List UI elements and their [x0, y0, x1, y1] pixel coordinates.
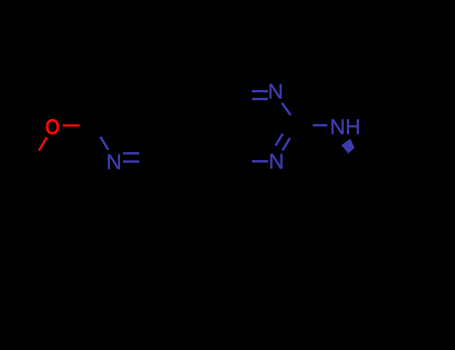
bond C2=N3 inner double line, blue half near N3	[276, 134, 283, 146]
bond C2-NH, blue half near NH	[313, 124, 328, 126]
bond N=C5 main line, blue half near N	[123, 160, 139, 162]
bond C6-N, blue half near N	[100, 137, 108, 150]
bond N=C5 inner double line, blue half near N	[123, 152, 139, 154]
bond C8a=N1 main line, blue half near N1	[252, 90, 268, 92]
bond O-C6, red half near O	[63, 124, 80, 126]
svg-text:N: N	[269, 149, 284, 173]
stereo wedge bond NH-C1 of cyclohexyl	[341, 139, 354, 154]
bond CH3-O, red half near O	[39, 137, 47, 150]
bond N3-C4a, blue half near N3	[252, 160, 268, 162]
svg-text:O: O	[45, 115, 59, 139]
carbon skeleton (black bonds, invisible on black background)	[33, 91, 416, 220]
svg-text:N: N	[106, 150, 121, 174]
bond C2=N3 main line, blue half near N3	[282, 138, 290, 150]
svg-text:N: N	[268, 79, 283, 103]
bond N1-C2, blue half near N1	[282, 103, 291, 115]
bond C8a=N1 inner double line, blue half near N1	[252, 98, 267, 100]
svg-text:NH: NH	[330, 115, 361, 139]
